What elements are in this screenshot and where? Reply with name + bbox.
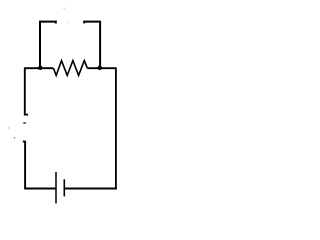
resistor R (zigzag) bbox=[53, 61, 87, 76]
tiny artifact: faint tick left of gap bbox=[8, 127, 11, 129]
tiny artifact: grey speck in left gap bbox=[14, 137, 16, 139]
wire: bottom-left run to battery positive plate bbox=[24, 188, 55, 190]
wire: bottom run from battery to bottom-right corner bbox=[65, 188, 117, 190]
node A (junction dot, left) bbox=[38, 66, 43, 71]
switch contact tick: right end of top gap bbox=[83, 21, 85, 24]
wire: left rail lower segment (from gap down to bottom-left corner) bbox=[24, 141, 26, 189]
contact foot at lower end of upper-left wire bbox=[24, 114, 28, 116]
wire: right rail (resistor line down to bottom wire) bbox=[115, 67, 117, 189]
wire: top-left branch (up from node A, right to switch gap) bbox=[40, 22, 56, 68]
wire: left rail upper segment (down from resistor line to open gap) bbox=[24, 67, 26, 114]
wire: main horizontal line, left lead of resistor bbox=[25, 67, 54, 69]
tiny artifact: faint grey dot above top gap bbox=[63, 8, 65, 10]
battery: long (positive) plate bbox=[55, 172, 57, 204]
switch contact tick: left end of top gap bbox=[55, 21, 57, 24]
node B (junction dot, right) bbox=[97, 66, 102, 71]
battery: short (negative) plate bbox=[63, 179, 65, 196]
tiny artifact: colored speck in left gap bbox=[23, 122, 27, 124]
wire: top-right branch (from switch gap right, down to node B) bbox=[83, 22, 100, 68]
contact flag at upper end of lower-left wire bbox=[23, 141, 25, 143]
tiny artifact: pale yellow dot in top gap bbox=[66, 22, 68, 24]
wire: right lead of resistor to right rail bbox=[87, 67, 116, 69]
